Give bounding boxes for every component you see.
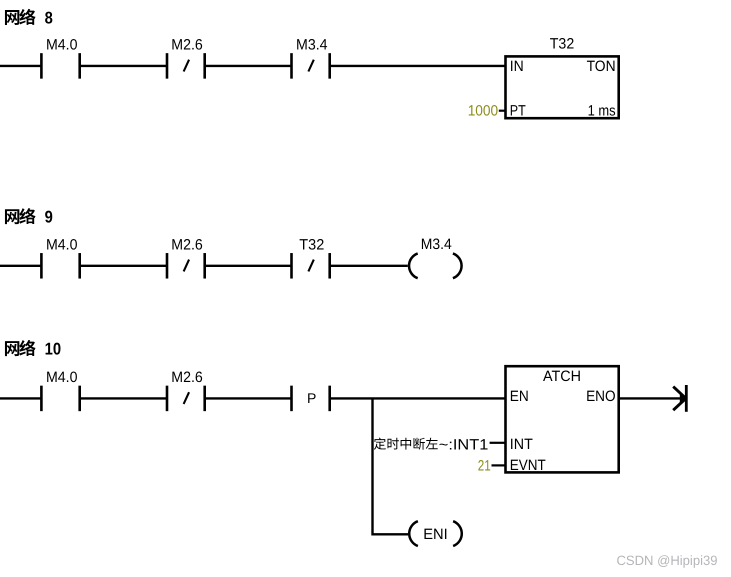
svg-text:IN: IN <box>510 58 524 75</box>
svg-text:10: 10 <box>45 340 62 359</box>
timer U1 T32 TON box <box>506 56 619 118</box>
wire M4.0 to M2.6 (net 8) <box>80 65 167 67</box>
svg-text:CSDN @Hipipi39: CSDN @Hipipi39 <box>617 553 718 568</box>
contact M2.6 NC (net 10) <box>166 386 169 412</box>
svg-text:ENO: ENO <box>586 388 616 405</box>
wire T32 to coil M3.4 (net 9) <box>330 265 408 267</box>
svg-text:M3.4: M3.4 <box>421 236 452 253</box>
svg-text:1000: 1000 <box>468 103 499 120</box>
network 8 title 网络 8 <box>5 10 19 25</box>
svg-text:~:INT1: ~:INT1 <box>439 436 489 453</box>
wire M2.6 to T32 (net 9) <box>205 265 292 267</box>
tick EVNT input <box>492 464 506 466</box>
contact M4.0 NO (net 10) <box>40 386 43 412</box>
svg-text:M3.4: M3.4 <box>296 37 328 54</box>
svg-text:ENI: ENI <box>423 526 448 543</box>
block U2 ATCH box <box>506 366 619 472</box>
svg-text:INT: INT <box>510 436 533 453</box>
svg-text:8: 8 <box>45 9 53 28</box>
coil M3.4 output (net 9) <box>409 253 418 278</box>
contact M4.0 NO (net 9) <box>40 253 43 278</box>
operand 定时中断左~:INT1 on INT <box>374 438 386 450</box>
svg-text:M4.0: M4.0 <box>46 369 78 386</box>
wire M4.0 to M2.6 (net 9) <box>80 265 167 267</box>
svg-text:EN: EN <box>510 388 529 405</box>
svg-text:M2.6: M2.6 <box>171 369 203 386</box>
svg-text:T32: T32 <box>550 35 575 52</box>
svg-text:PT: PT <box>510 103 526 120</box>
svg-text:M2.6: M2.6 <box>171 37 203 54</box>
network 9 title 网络 9 <box>5 209 19 224</box>
wire M2.6 to P contact (net 10) <box>205 397 292 399</box>
wire left rail to M4.0 (net 10) <box>0 397 41 399</box>
wire left rail to contact M4.0 (net 8) <box>0 65 41 67</box>
coil ENI enable interrupts <box>409 521 418 546</box>
wire M2.6 to M3.4 (net 8) <box>205 65 292 67</box>
svg-text:M2.6: M2.6 <box>171 237 203 254</box>
svg-text:21: 21 <box>478 457 491 474</box>
svg-text:T32: T32 <box>299 237 324 254</box>
contact M3.4 NC (net 8) <box>290 53 293 79</box>
svg-text:EVNT: EVNT <box>510 457 546 474</box>
wire M3.4 to timer IN (net 8) <box>330 65 506 67</box>
contact T32 NC (net 9) <box>290 253 293 278</box>
wire P contact to ATCH EN (net 10) <box>330 397 506 399</box>
wire ENO to continuation arrow <box>619 397 686 399</box>
wire branch down to ENI coil <box>373 398 409 534</box>
continuation arrow at rung end <box>685 385 688 412</box>
svg-text:M4.0: M4.0 <box>46 37 78 54</box>
contact M4.0 NO (net 8) <box>40 53 43 79</box>
contact M2.6 NC (net 8) <box>166 53 169 79</box>
svg-text:P: P <box>307 390 316 406</box>
wire M4.0 to M2.6 (net 10) <box>80 397 167 399</box>
svg-text:M4.0: M4.0 <box>46 237 78 254</box>
svg-text:ATCH: ATCH <box>543 368 581 385</box>
svg-text:1 ms: 1 ms <box>588 103 616 120</box>
contact P positive edge (net 10) <box>290 386 293 412</box>
svg-text:TON: TON <box>587 58 616 75</box>
wire left rail to M4.0 (net 9) <box>0 265 41 267</box>
tick INT input <box>490 442 506 444</box>
svg-text:9: 9 <box>45 208 53 227</box>
tick PT input <box>499 110 506 112</box>
contact M2.6 NC (net 9) <box>166 253 169 278</box>
network 10 title 网络 10 <box>5 341 19 356</box>
